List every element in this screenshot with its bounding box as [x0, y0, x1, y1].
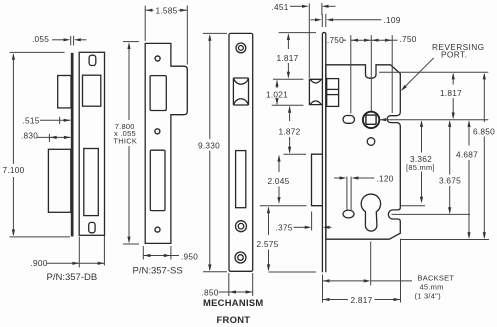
- mechanism case outline: [326, 65, 400, 239]
- BACKSET dimension: [323, 239, 455, 303]
- ext line mech faceplate bottom: [268, 271, 316, 273]
- svg-text:.055: .055: [32, 34, 49, 44]
- hub square follower: [363, 112, 379, 128]
- svg-text:.120: .120: [377, 174, 394, 184]
- dim .055 faceplate thickness: [32, 34, 87, 46]
- svg-text:4.687: 4.687: [456, 150, 478, 160]
- svg-text:P/N:357-SS: P/N:357-SS: [133, 266, 183, 277]
- svg-text:(1 3/4"): (1 3/4"): [415, 292, 442, 301]
- small circle below hub: [367, 138, 375, 146]
- faceplate front outline: [229, 33, 253, 271]
- dim .830 deadbolt projection: [21, 131, 71, 142]
- screw hole top (donut): [236, 43, 246, 53]
- dim .109 faceplate thickness: [311, 14, 401, 27]
- latch cutout: [150, 76, 166, 111]
- mechanism faceplate edge-on: [322, 33, 325, 273]
- deadbolt opening: [236, 151, 246, 208]
- dim .850 faceplate width: [202, 273, 253, 298]
- svg-text:FRONT: FRONT: [217, 314, 251, 325]
- svg-text:[85.mm]: [85.mm]: [406, 163, 435, 172]
- svg-text:.950: .950: [181, 252, 198, 262]
- euro cylinder hole: [361, 194, 380, 231]
- svg-text:PORT.: PORT.: [441, 49, 467, 59]
- ext line deadbolt bottom: [260, 205, 307, 207]
- svg-text:.451: .451: [272, 2, 289, 12]
- dim 1.872: [279, 106, 301, 154]
- dim 2.817: [323, 295, 401, 305]
- dim 7.100 case height: [3, 52, 71, 237]
- screw hole bottom (donut): [235, 252, 246, 263]
- svg-text:MECHANISM: MECHANISM: [203, 297, 264, 308]
- svg-text:.109: .109: [384, 15, 401, 25]
- ext line latch bottom: [272, 104, 304, 106]
- dim .515 latch projection: [23, 116, 71, 126]
- svg-text:P/N:357-DB: P/N:357-DB: [47, 272, 98, 283]
- svg-text:1.021: 1.021: [266, 90, 288, 100]
- dim 1.817: [277, 33, 299, 78]
- svg-text:7.100: 7.100: [3, 165, 25, 175]
- latch opening (concave top/bottom): [233, 78, 248, 105]
- dim .750 left (hub to oblong): [327, 34, 417, 45]
- deadbolt cutout: [150, 150, 165, 210]
- dim .375 deadbolt projection: [276, 212, 332, 233]
- svg-text:2.045: 2.045: [268, 176, 290, 186]
- screw hole middle: [155, 129, 160, 134]
- screw hole bottom: [155, 227, 160, 232]
- dim 4.687: [456, 120, 478, 239]
- svg-text:6.850: 6.850: [473, 126, 495, 136]
- ext lines for .750 dims: [350, 35, 352, 113]
- case cavity (deadbolt area): [84, 149, 99, 216]
- REVERSING PORT label + leader: [401, 42, 485, 91]
- svg-text:.830: .830: [21, 131, 38, 141]
- ext line deadbolt top: [284, 153, 307, 155]
- strike plate outline with curved lip: [145, 43, 187, 243]
- latch tail stack in case: [327, 79, 339, 107]
- lock case body: [79, 52, 104, 235]
- screw hole top: [155, 56, 160, 61]
- oval hole lower left: [343, 210, 354, 218]
- dim .120 slot width: [334, 174, 394, 184]
- dim 1.585 strike width: [145, 5, 187, 64]
- svg-text:THICK: THICK: [113, 137, 137, 146]
- svg-text:.750: .750: [400, 34, 417, 44]
- ext line latch top: [273, 78, 304, 80]
- svg-text:1.585: 1.585: [156, 5, 178, 15]
- oblong hole left of hub: [343, 116, 355, 124]
- dim .950 plate body width: [143, 246, 198, 262]
- dim 7.800 x .055 THICK: [113, 42, 139, 244]
- deadbolt head (extended): [312, 154, 323, 206]
- svg-text:.375: .375: [276, 222, 293, 232]
- svg-text:2.575: 2.575: [257, 239, 279, 249]
- dim 1.817 right: [440, 73, 462, 120]
- dim 2.045: [268, 155, 290, 204]
- case cavity (latch area): [83, 75, 101, 106]
- svg-text:.750: .750: [327, 35, 344, 45]
- oval hole bottom: [89, 222, 95, 232]
- svg-text:9.330: 9.330: [198, 140, 220, 150]
- oval hole top: [89, 55, 96, 65]
- svg-text:3.675: 3.675: [439, 176, 461, 186]
- dim 1.021: [266, 80, 288, 105]
- dim 3.675: [392, 120, 471, 214]
- deadbolt side view: [48, 149, 70, 212]
- svg-text:BACKSET: BACKSET: [418, 273, 455, 282]
- screw hole mid (donut): [236, 221, 247, 232]
- bottom right ext line: [401, 239, 489, 241]
- latch bolt side view: [58, 76, 71, 108]
- ext line faceplate top: [279, 32, 316, 34]
- svg-text:1.872: 1.872: [279, 126, 301, 136]
- hub centerline with arrow: [379, 118, 488, 121]
- svg-text:45.mm: 45.mm: [420, 283, 444, 292]
- svg-text:.515: .515: [23, 116, 40, 126]
- svg-text:1.817: 1.817: [440, 88, 462, 98]
- dim .900 case depth: [31, 236, 105, 268]
- svg-text:.900: .900: [31, 258, 48, 268]
- slot to oval hole: [347, 177, 351, 210]
- dim .451 latch projection: [272, 2, 336, 78]
- top right ext line: [379, 71, 488, 73]
- svg-text:1.817: 1.817: [277, 53, 299, 63]
- dim 3.362 [85.mm]: [401, 120, 435, 206]
- dim 6.850: [473, 73, 495, 240]
- dim 2.575: [257, 206, 279, 271]
- dim 9.330 faceplate height: [198, 33, 227, 271]
- faceplate edge-on bar: [71, 53, 74, 237]
- latch bolt head: [309, 79, 322, 104]
- svg-text:2.817: 2.817: [351, 295, 373, 305]
